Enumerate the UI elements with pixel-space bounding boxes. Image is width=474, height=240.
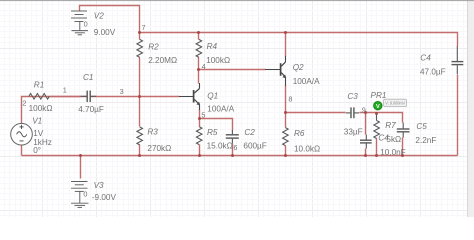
junction R4 top (197, 31, 200, 34)
svg-text:V: V (376, 104, 380, 110)
wire Q1 emitter to node 5 (199, 110, 201, 119)
svg-text:R5: R5 (207, 128, 218, 137)
wire V1- to bottom rail (21, 146, 23, 156)
capacitor C5 (397, 123, 410, 138)
svg-text:-9.00V: -9.00V (92, 193, 117, 202)
junction C5 bottom (401, 154, 404, 157)
svg-text:V3: V3 (94, 181, 104, 190)
wire node 1 R1 to C1 (50, 96, 87, 98)
svg-text:100kΩ: 100kΩ (29, 104, 53, 113)
svg-text:V: 9.000mV: V: 9.000mV (385, 101, 406, 106)
svg-text:Q2: Q2 (293, 63, 304, 72)
resistor R2 (137, 39, 143, 57)
svg-text:R6: R6 (294, 129, 305, 138)
wire node 9 to C6 (365, 113, 367, 135)
resistor R1 (29, 94, 49, 100)
svg-text:R1: R1 (34, 81, 44, 90)
wire node 4 to Q1 collector (198, 70, 200, 84)
capacitor C2 (226, 130, 239, 143)
wire node 5 to C2 (200, 119, 233, 131)
svg-text:33µF: 33µF (344, 128, 363, 137)
wire C2 to bottom rail (232, 144, 234, 156)
junction node 9 (364, 111, 367, 114)
svg-text:R2: R2 (148, 43, 159, 52)
svg-text:100A/A: 100A/A (293, 77, 320, 86)
wire node7 to R2 (139, 33, 141, 40)
wire R7 to bottom rail (376, 139, 378, 156)
transistor Q1 (179, 83, 200, 110)
junction node 8 (284, 111, 287, 114)
junction node 3 (138, 95, 141, 98)
svg-text:100A/A: 100A/A (207, 105, 234, 114)
svg-text:270kΩ: 270kΩ (147, 144, 171, 153)
svg-text:6: 6 (233, 143, 237, 152)
wire R4 to node 4 (198, 58, 200, 70)
svg-text:3: 3 (120, 87, 124, 96)
junction R5 bottom (198, 154, 201, 157)
wire R5 to bottom rail (199, 145, 201, 156)
probe PR1 (373, 101, 383, 111)
svg-text:V2: V2 (94, 11, 104, 20)
wire node 9 to C5 (360, 113, 403, 123)
resistor R5 (196, 127, 202, 145)
wire R3 to bottom rail (139, 145, 141, 156)
resistor R3 (137, 127, 143, 145)
svg-text:R3: R3 (147, 128, 158, 137)
capacitor C4 (452, 46, 464, 74)
svg-text:15.0kΩ: 15.0kΩ (207, 141, 233, 150)
wire bottom rail net 6 (22, 155, 458, 157)
svg-text:9.00V: 9.00V (94, 28, 116, 37)
junction R7 top / probe (375, 112, 378, 115)
svg-text:10.0nF: 10.0nF (380, 148, 406, 157)
window chrome top border (0, 0, 474, 1)
svg-text:R7: R7 (385, 121, 396, 130)
wire node 8 to R6 (285, 113, 287, 128)
wire C4 to bottom rail (457, 75, 459, 156)
svg-text:0: 0 (84, 19, 88, 28)
battery V3 (71, 182, 88, 204)
svg-text:PR1: PR1 (371, 91, 387, 100)
wire node 8 to C3 (286, 112, 346, 114)
svg-text:4.70µF: 4.70µF (78, 105, 104, 114)
svg-text:100kΩ: 100kΩ (206, 56, 230, 65)
wire node 5 to R5 (199, 119, 201, 127)
ground for V2 (net 0) (72, 31, 89, 35)
capacitor C1 (81, 91, 96, 102)
wire V2+ to node 7 (80, 6, 140, 33)
junction R6 bottom (284, 154, 287, 157)
svg-text:C3: C3 (347, 92, 358, 101)
svg-text:1: 1 (63, 85, 67, 94)
svg-text:10.0kΩ: 10.0kΩ (294, 144, 320, 153)
scrollbar right (467, 0, 474, 217)
resistor R6 (283, 128, 289, 146)
svg-text:0: 0 (83, 189, 87, 198)
svg-text:2: 2 (22, 98, 26, 107)
svg-text:Q1: Q1 (207, 92, 218, 101)
transistor Q2 (265, 56, 286, 86)
wire probe node to R7 (376, 114, 378, 121)
wire V1+ to R1 (22, 97, 81, 124)
battery V2 (71, 11, 87, 31)
resistor R4 (196, 39, 202, 57)
junction C6 bottom (364, 154, 367, 157)
ground for V3 (net 0) (71, 203, 89, 207)
capacitor C3 (346, 107, 359, 118)
wire C6 to bottom rail (365, 149, 367, 156)
wire C5 to bottom rail (402, 138, 404, 156)
junction node 4 (197, 68, 200, 71)
AC source V1 (11, 123, 33, 145)
svg-text:47.0µF: 47.0µF (420, 68, 446, 77)
wire R6 to bottom rail (285, 146, 287, 156)
wire top rail node 7 to C4 (140, 33, 458, 47)
svg-text:C5: C5 (416, 122, 427, 131)
junction Q2 collector (284, 31, 287, 34)
svg-text:5: 5 (201, 110, 205, 119)
wire node 4 to Q2 base (199, 69, 266, 71)
svg-text:2.2nF: 2.2nF (415, 136, 436, 145)
junction node 7 (138, 31, 141, 34)
svg-text:4: 4 (202, 62, 206, 71)
junction C2 bottom (231, 154, 234, 157)
wire Q2 emitter to node 8 (285, 86, 287, 113)
capacitor C6 (360, 135, 372, 149)
resistor R7 (374, 121, 380, 139)
svg-text:2.20MΩ: 2.20MΩ (148, 56, 177, 65)
junction node 5 (198, 117, 201, 120)
wire node 3 C1 to Q1 base (91, 96, 180, 98)
svg-text:C4: C4 (420, 54, 431, 63)
svg-text:0°: 0° (33, 146, 41, 155)
junction R3 bottom (138, 154, 141, 157)
svg-text:7: 7 (142, 23, 146, 32)
wire bottom rail to V3+ (80, 156, 82, 179)
junction V3 (79, 154, 82, 157)
junction R7 bottom (375, 154, 378, 157)
probe tooltip V: 9.000mV (384, 99, 407, 106)
wire R2 to node 3 to R3 (139, 58, 141, 127)
wire top rail to R4 (198, 33, 200, 40)
wire top rail to Q2 collector (285, 33, 287, 57)
svg-text:V1: V1 (32, 116, 42, 125)
svg-text:600µF: 600µF (243, 141, 266, 150)
svg-text:C1: C1 (83, 73, 93, 82)
svg-text:9: 9 (362, 105, 366, 114)
svg-text:8: 8 (288, 95, 292, 104)
svg-text:R4: R4 (207, 42, 218, 51)
svg-text:5kΩ: 5kΩ (386, 135, 401, 144)
svg-text:C2: C2 (244, 128, 255, 137)
